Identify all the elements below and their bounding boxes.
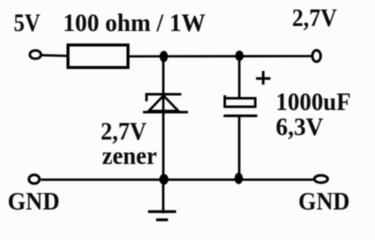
wire input to resistor: [42, 54, 68, 57]
svg-text:5V: 5V: [14, 10, 41, 37]
svg-text:GND: GND: [8, 188, 60, 215]
capacitor C1 plate tick: [224, 95, 227, 98]
resistor R1 100 ohm: [68, 45, 128, 68]
terminal 5V input: [30, 50, 41, 58]
zener diode D1 anode line: [143, 111, 188, 114]
wire resistor to output terminal (top rail): [130, 55, 312, 58]
svg-text:2,7V: 2,7V: [292, 5, 337, 32]
capacitor C1 positive plate box: [225, 98, 256, 107]
terminal 2,7V output: [312, 50, 320, 61]
node junction bottom zener: [159, 174, 168, 185]
terminal GND right: [314, 175, 327, 182]
zener diode D1 cathode bar: [145, 93, 181, 96]
svg-text:GND: GND: [298, 188, 350, 215]
node junction top capacitor: [235, 51, 243, 62]
svg-text:2,7V: 2,7V: [101, 119, 147, 146]
ground symbol bar 1: [148, 210, 176, 213]
node junction top zener: [160, 51, 168, 62]
ground symbol stem: [162, 180, 164, 213]
zener diode D1 triangle: [149, 96, 179, 111]
ground symbol bar 2: [156, 218, 168, 221]
capacitor polarity plus sign: [256, 77, 271, 80]
wire zener branch vertical: [162, 56, 164, 180]
wire bottom rail: [41, 178, 313, 180]
zener diode D1 cathode bend: [145, 94, 148, 101]
wire capacitor branch upper: [238, 56, 240, 99]
svg-text:1000uF: 1000uF: [276, 89, 351, 116]
svg-text:6,3V: 6,3V: [276, 114, 324, 141]
node junction bottom capacitor: [235, 173, 243, 184]
capacitor C1 negative plate: [224, 115, 258, 118]
svg-text:zener: zener: [102, 143, 157, 170]
wire capacitor branch lower: [238, 117, 240, 180]
svg-text:100 ohm / 1W: 100 ohm / 1W: [63, 10, 206, 37]
terminal GND left: [29, 175, 40, 184]
